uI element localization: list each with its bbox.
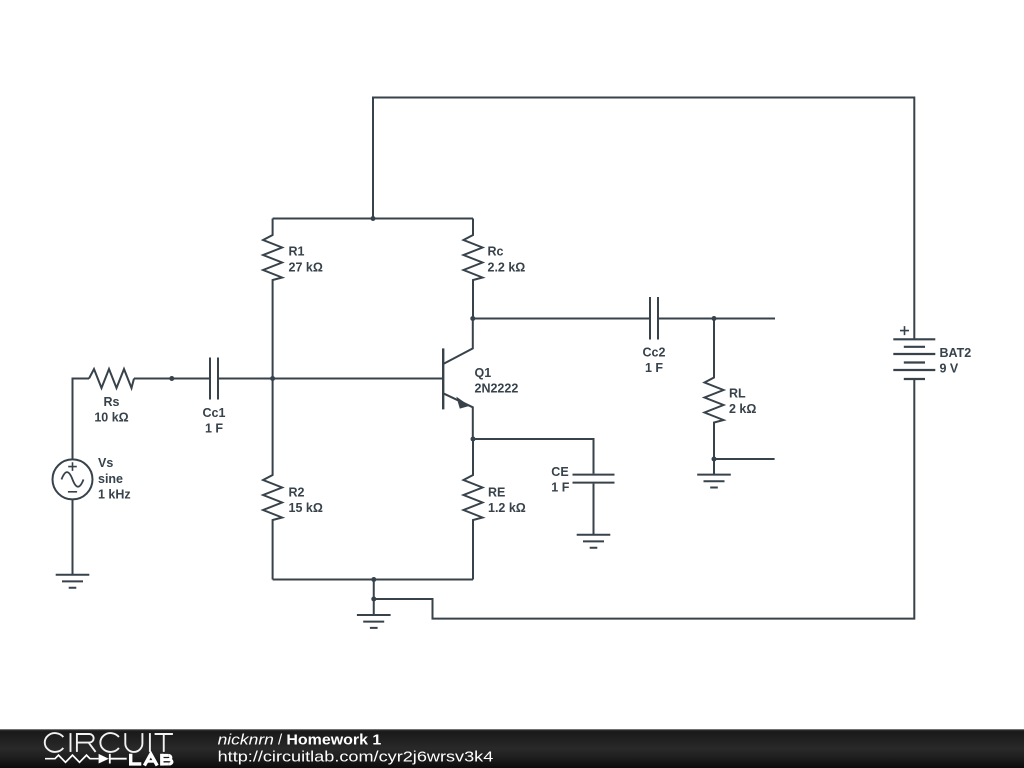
wire: bottom rail R2 to RE: [273, 579, 473, 581]
svg-text:1 F: 1 F: [205, 422, 223, 436]
transistor Q1 emitter arrowhead: [456, 397, 469, 409]
wire: Rs to Cc1 left plate: [134, 378, 209, 380]
wire: RL bottom stub to right: [714, 458, 775, 460]
svg-text:Q1: Q1: [475, 366, 492, 380]
resistor R1: [263, 219, 282, 379]
svg-text:1 F: 1 F: [551, 481, 569, 495]
svg-text:1 F: 1 F: [645, 361, 663, 375]
wire: Cc1 to Q1 base: [219, 378, 443, 380]
node: base rail / R1-R2 junction dot: [270, 376, 275, 381]
battery BAT2 plus sign: [900, 326, 909, 335]
wire: collector node to Cc2 left plate: [473, 318, 649, 320]
wire: input corner from Vs up to base rail: [73, 379, 90, 460]
source Vs sine wave: [62, 472, 84, 487]
wire: emitter node to CE: [473, 439, 594, 474]
svg-text:2.2 kΩ: 2.2 kΩ: [488, 260, 526, 274]
capacitor Cc1 plates: [210, 358, 218, 400]
transistor Q1 collector branch: [443, 319, 473, 365]
ground: main (below node): [373, 599, 375, 615]
node A junction (V+ rail / R1-Rc rail): [371, 216, 376, 221]
svg-text:Cc1: Cc1: [203, 406, 226, 420]
wire: R1-Rc top rail: [273, 218, 473, 220]
svg-text:2N2222: 2N2222: [475, 382, 519, 396]
wire: bottom rail to ground node: [373, 580, 375, 600]
resistor Rc: [464, 219, 483, 319]
svg-text:R2: R2: [289, 485, 305, 499]
source Vs circle: [53, 459, 93, 499]
svg-text:BAT2: BAT2: [940, 346, 972, 360]
logo squiggle resistor: [45, 755, 99, 762]
svg-text:CE: CE: [551, 465, 568, 479]
ground: below CE: [577, 535, 611, 548]
wire: ground net return to battery -: [374, 379, 915, 619]
logo diode triangle: [99, 754, 109, 764]
wire: CE bottom plate to ground: [593, 484, 595, 535]
resistor R2: [263, 379, 282, 580]
node: ground net junction dot: [371, 597, 376, 602]
svg-text:http://circuitlab.com/cyr2j6wr: http://circuitlab.com/cyr2j6wrsv3k4: [218, 748, 494, 765]
wire: Vs bottom to ground: [72, 499, 74, 574]
svg-text:Rs: Rs: [104, 395, 120, 409]
capacitor CE plates: [573, 475, 615, 483]
logo CIRCUIT letters (drawn): [45, 733, 173, 752]
svg-text:Vs: Vs: [98, 456, 113, 470]
resistor RL: [705, 319, 724, 460]
source Vs plus sign: [68, 462, 77, 471]
source Vs minus sign: [68, 491, 77, 493]
svg-text:R1: R1: [289, 245, 305, 259]
svg-text:RL: RL: [729, 387, 746, 401]
node: emitter junction dot: [471, 437, 476, 442]
ground: below Vs: [56, 575, 90, 588]
svg-text:nicknrn / Homework 1: nicknrn / Homework 1: [218, 731, 382, 748]
node: bottom rail junction dot: [371, 577, 376, 582]
ground: below RL: [713, 459, 715, 475]
svg-text:Rc: Rc: [488, 245, 504, 259]
logo diode cathode bar and lead: [109, 754, 127, 764]
node: collector junction dot: [470, 316, 475, 321]
svg-text:10 kΩ: 10 kΩ: [94, 411, 128, 425]
svg-text:15 kΩ: 15 kΩ: [289, 501, 323, 515]
footer bar: [0, 729, 1024, 768]
svg-text:1 kHz: 1 kHz: [98, 488, 131, 502]
svg-text:27 kΩ: 27 kΩ: [289, 260, 323, 274]
node: Cc2/RL junction dot: [712, 316, 717, 321]
svg-text:sine: sine: [98, 472, 123, 486]
battery BAT2 plates: [893, 339, 935, 379]
node: RL bottom junction dot: [712, 457, 717, 462]
resistor RE: [464, 439, 483, 580]
wire: Cc2 right plate to output stub: [659, 318, 775, 320]
node: Rs/Cc1 junction dot: [169, 376, 174, 381]
svg-text:Cc2: Cc2: [643, 345, 666, 359]
svg-text:9 V: 9 V: [940, 362, 959, 376]
transistor Q1 base bar: [442, 348, 444, 409]
transistor Q1 emitter branch: [443, 393, 473, 439]
logo LAB letters (drawn): [129, 754, 141, 766]
capacitor Cc2 plates: [650, 297, 658, 340]
svg-text:1.2 kΩ: 1.2 kΩ: [488, 501, 526, 515]
resistor Rs (horizontal): [89, 369, 134, 388]
wire: V+ rail from node A up-over to BAT2 + terminal: [373, 98, 914, 340]
svg-text:RE: RE: [488, 485, 505, 499]
svg-text:2 kΩ: 2 kΩ: [729, 402, 756, 416]
